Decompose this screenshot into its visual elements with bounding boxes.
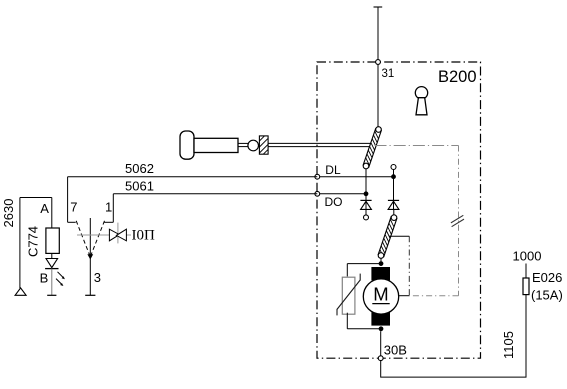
svg-text:30B: 30B: [384, 343, 407, 358]
key position cross line (gray): [117, 223, 119, 244]
svg-text:7: 7: [70, 199, 77, 214]
cable double line (key to ball joint): [238, 143, 248, 146]
key handle: [180, 131, 194, 159]
node 30B (pin circle on B200 border): [378, 356, 383, 361]
mechanical linkage right edge (dash-dot): [458, 146, 460, 296]
key shaft: [194, 138, 238, 152]
label B: [40, 271, 49, 286]
fuse E026: [523, 278, 529, 295]
node DO (pin circle on B200 border): [315, 191, 320, 196]
cable ball joint: [248, 140, 259, 151]
svg-text:E026: E026: [532, 270, 562, 285]
pin 3 label: [94, 270, 101, 285]
terminal bar under B branch: [47, 294, 56, 296]
pin 7 label: [70, 199, 77, 214]
label (15A): [531, 288, 563, 303]
thermal protector (PTC): [337, 274, 360, 316]
wire DO (inside B200): [317, 193, 366, 195]
wire 2630: [20, 198, 52, 289]
svg-text:3: 3: [94, 270, 101, 285]
label 5061: [125, 179, 154, 194]
contact circle (left): [364, 215, 369, 220]
linkage stub from lower arm: [389, 235, 409, 237]
wire right diode branch: [393, 170, 395, 210]
junction motor bottom: [379, 326, 384, 331]
wire 5062 (DL to pin 7): [68, 177, 318, 223]
wire motor parallel bottom: [347, 313, 381, 329]
key switch symbol (bowtie): [109, 229, 126, 241]
svg-text:A: A: [40, 201, 49, 216]
label DL: [325, 163, 341, 177]
contact circle above right diode: [391, 165, 396, 170]
label I0П (key positions): [132, 228, 155, 244]
svg-text:DO: DO: [325, 195, 343, 209]
wiper arrowhead: [87, 254, 93, 259]
svg-text:C774: C774: [26, 226, 41, 257]
diode (right, DL branch): [388, 200, 399, 209]
label 1000: [513, 249, 542, 264]
mechanical linkage inner vertical (dash-dot): [408, 236, 410, 295]
svg-text:1: 1: [105, 199, 112, 214]
selector wiper dashed traces: [76, 221, 104, 256]
svg-text:(15A): (15A): [531, 288, 563, 303]
label 5062: [125, 161, 154, 176]
junction DL / right diode: [391, 174, 396, 179]
junction motor top: [379, 261, 384, 266]
motor M1 body: [363, 279, 398, 314]
label 1105 (rotated): [501, 331, 516, 359]
svg-text:DL: DL: [325, 163, 341, 177]
svg-text:B: B: [40, 271, 49, 286]
resistor C774: [46, 228, 59, 253]
mechanical linkage bottom edge (dash-dot): [409, 295, 458, 297]
break symbol (double slash): [451, 215, 464, 226]
node DL (pin circle on B200 border): [315, 174, 320, 179]
pin label 31: [382, 68, 395, 80]
wire C774 to LED: [51, 253, 53, 258]
label 2630 (rotated): [1, 199, 16, 228]
svg-text:I0Π: I0Π: [132, 228, 155, 244]
wire motor to node 30B: [380, 331, 382, 356]
svg-text:B200: B200: [438, 68, 477, 86]
cable double line (to lock actuator): [268, 143, 373, 146]
svg-text:1105: 1105: [501, 331, 516, 359]
wire: upper arm to DO junction: [365, 169, 367, 210]
label B200: [438, 68, 477, 86]
mechanical actuation line (gray): [77, 234, 131, 236]
wire left diode to contact: [365, 209, 367, 215]
svg-text:1000: 1000: [513, 249, 542, 264]
terminal bar under pin 3: [85, 294, 95, 296]
svg-text:2630: 2630: [1, 199, 16, 228]
junction DO / left diode: [364, 191, 369, 196]
label A: [40, 201, 49, 216]
wiper common stem (pin 3): [89, 218, 91, 295]
svg-text:31: 31: [382, 68, 395, 80]
switch arm lower (hatched, motor drive): [378, 215, 397, 258]
label 30B: [384, 343, 407, 358]
wire DL (inside B200): [317, 176, 393, 178]
svg-text:5061: 5061: [125, 179, 154, 194]
cable end fitting (hatched): [259, 136, 268, 154]
wire A to C774: [51, 198, 53, 229]
mechanical linkage top edge (dash-dot): [375, 145, 459, 147]
node 31 (connector pin on B200): [376, 60, 381, 65]
component box B200 (steering/ignition lock unit, dash-dot border): [317, 62, 481, 358]
wire right diode to lower arm: [393, 209, 395, 215]
diode (left, DO branch): [360, 200, 371, 209]
motor M1 brushes: [371, 267, 390, 326]
switch arm upper (hatched contact arm of lock): [363, 127, 381, 169]
wire lower arm to motor: [380, 258, 382, 266]
keyhole symbol: [415, 87, 427, 115]
wire 5061 (DO to pin 1): [104, 194, 317, 223]
wire: supply to node 31 and switch: [377, 8, 379, 127]
wire 1105 (30B to fuse E026): [381, 295, 526, 378]
power feed tick (top rail continuation): [374, 6, 383, 8]
label DO: [325, 195, 343, 209]
svg-text:M: M: [373, 284, 388, 305]
label E026: [532, 270, 562, 285]
LED emission arrows: [56, 272, 65, 286]
splice triangle at 2630: [15, 288, 26, 295]
svg-text:5062: 5062: [125, 161, 154, 176]
linkage stub to motor shaft: [399, 295, 409, 297]
wire LED to terminal: [51, 269, 53, 296]
wire 1000 (fuse feed): [525, 264, 527, 279]
wire motor parallel top: [347, 264, 381, 277]
label C774 (rotated): [26, 226, 41, 257]
LED indicator diode: [45, 259, 58, 269]
pin 1 label: [105, 199, 112, 214]
